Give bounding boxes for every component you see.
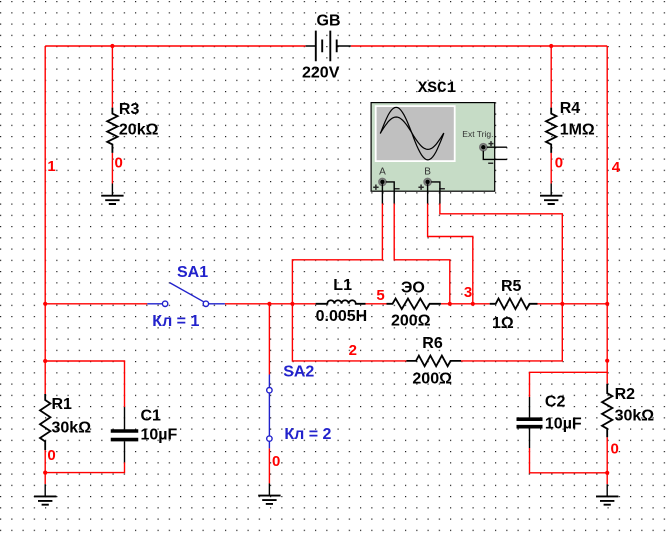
node 3 junction main line / A- (448, 302, 452, 306)
svg-text:1Ω: 1Ω (492, 315, 514, 332)
svg-text:10µF: 10µF (545, 416, 582, 433)
ground (R1/C1) (44, 484, 46, 496)
wire left rail to C1 top (45, 361, 124, 407)
node 3 junction main line / B+ (471, 302, 475, 306)
svg-text:0.005H: 0.005H (316, 308, 368, 325)
node 0 junction R1 bottom / C1 bottom (43, 471, 47, 475)
wire L1 to EO (node 5) (366, 303, 387, 305)
wire R5 right junction down to R6 (461, 304, 562, 361)
ground (R3) (111, 184, 113, 196)
node junction main line / SA2 (267, 302, 271, 306)
svg-text:L1: L1 (333, 277, 352, 294)
ground (SA2) (268, 483, 270, 495)
node junction top rail / R3 (110, 44, 114, 48)
oscilloscope Ext Trig terminal (480, 144, 487, 151)
resistor R2 (602, 384, 612, 438)
svg-text:0: 0 (47, 447, 55, 464)
resistor R4 (546, 108, 556, 153)
oscilloscope Ext Trig stubs (483, 147, 507, 159)
svg-text:30kΩ: 30kΩ (615, 408, 655, 425)
node 4 junction main line / right rail (605, 302, 609, 306)
svg-text:R6: R6 (422, 335, 443, 352)
wire scope A- to node 3 left junction (394, 204, 450, 304)
wire top rail to R3 (111, 46, 113, 108)
svg-text:0: 0 (555, 154, 563, 171)
switch SA2 (268, 375, 270, 449)
svg-text:4: 4 (612, 159, 621, 176)
svg-text:220V: 220V (302, 65, 340, 82)
svg-text:1: 1 (47, 158, 55, 175)
wire R2 bottom to C2 bottom (530, 448, 608, 473)
svg-text:1MΩ: 1MΩ (560, 122, 595, 139)
svg-text:200Ω: 200Ω (412, 371, 452, 388)
wire top rail right of GB (351, 45, 607, 47)
capacitor C2 (529, 397, 531, 417)
svg-text:Ext Trig.: Ext Trig. (462, 129, 493, 139)
svg-text:30kΩ: 30kΩ (52, 420, 92, 437)
wire left rail (node 1) (44, 46, 46, 396)
oscilloscope terminal A leads (382, 182, 394, 204)
wire right rail to C2 top (530, 372, 608, 397)
svg-text:R5: R5 (501, 278, 522, 295)
wire R2 bottom to ground (606, 437, 608, 484)
svg-text:200Ω: 200Ω (391, 312, 431, 329)
resistor EO (200 Ohm) (387, 299, 441, 310)
switch SA1 (147, 303, 225, 305)
node junction main line / B- / R6 (560, 302, 564, 306)
oscilloscope terminal B leads (428, 182, 440, 204)
node 5 junction main line / A+ / R6 (290, 302, 294, 306)
svg-text:R3: R3 (119, 101, 140, 118)
battery GB (306, 45, 351, 47)
svg-text:R4: R4 (560, 100, 581, 117)
wire main line down to SA2 (268, 304, 270, 375)
svg-text:10µF: 10µF (141, 426, 178, 443)
wire R1 bottom to C1 bottom (45, 462, 124, 472)
ground (R2/C2) (606, 484, 608, 496)
node junction top rail / R4 (549, 44, 553, 48)
svg-text:R1: R1 (52, 396, 73, 413)
svg-text:0: 0 (611, 440, 619, 457)
oscilloscope XSC1 body (371, 103, 495, 192)
capacitor C1 (124, 407, 126, 429)
wire scope B+ to node 3 right junction (428, 204, 473, 304)
oscilloscope XSC1 screen (375, 105, 456, 162)
wire scope A+ to node 5 junction (292, 204, 382, 304)
svg-text:XSC1: XSC1 (418, 79, 456, 97)
wire main line to SA1 (45, 303, 147, 305)
ground (R4) (550, 184, 552, 196)
wire R5 to right rail (538, 303, 608, 305)
svg-text:20kΩ: 20kΩ (119, 122, 159, 139)
svg-text:C2: C2 (545, 393, 566, 410)
node 0 junction R2 bottom / C2 bottom (605, 471, 609, 475)
svg-text:0: 0 (115, 154, 123, 171)
resistor R1 (40, 394, 50, 450)
resistor R6 (406, 356, 461, 367)
inductor L1 (316, 300, 366, 304)
svg-text:Кл = 1: Кл = 1 (152, 313, 199, 330)
wire right rail (node 4) (606, 46, 608, 384)
wire node 5 junction down to R6 (node 2) (292, 304, 406, 361)
svg-text:A: A (379, 167, 386, 178)
wire R1 bottom to ground (44, 450, 46, 484)
wire SA1 to L1 (225, 303, 316, 305)
resistor R3 (107, 108, 117, 153)
node junction right rail / C2 branch (605, 359, 609, 363)
svg-text:Кл = 2: Кл = 2 (284, 426, 331, 443)
svg-text:B: B (424, 167, 431, 178)
node junction left rail / C1 top (43, 359, 47, 363)
svg-text:SA2: SA2 (283, 364, 314, 381)
svg-text:ЭО: ЭО (401, 280, 425, 297)
svg-text:C1: C1 (141, 407, 162, 424)
wire top rail left of GB (45, 45, 305, 47)
wire SA2 to ground (268, 448, 270, 483)
wire R3 to ground (111, 153, 113, 184)
svg-text:GB: GB (317, 12, 341, 29)
wire R4 to ground (550, 153, 552, 184)
node junction left rail / main line (43, 302, 47, 306)
svg-text:3: 3 (464, 284, 472, 301)
svg-text:0: 0 (272, 453, 280, 470)
svg-text:SA1: SA1 (177, 264, 208, 281)
wire scope B- to R5 right junction (440, 204, 562, 304)
wire top rail to R4 (550, 46, 552, 108)
wire EO to R5 (node 3) (441, 303, 490, 305)
oscilloscope XSC1 waveform traces (380, 107, 444, 160)
svg-text:R2: R2 (615, 386, 636, 403)
svg-text:2: 2 (349, 342, 357, 359)
resistor R5 (490, 299, 538, 310)
svg-text:5: 5 (376, 287, 384, 304)
